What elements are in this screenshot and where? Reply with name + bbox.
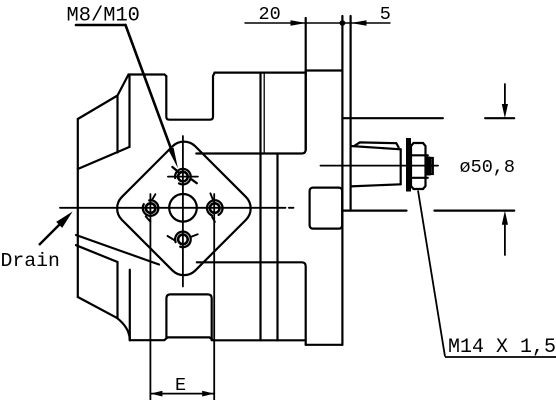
- wire: vertical centerline through flange: [182, 136, 184, 287]
- wire: drive shaft centerline: [321, 165, 439, 167]
- top notch between bosses: [166, 73, 214, 120]
- stub end cap: [431, 158, 433, 174]
- dim line dia50.8 lower stem: [504, 218, 506, 255]
- pilot dia50.8 bottom edge segment: [342, 210, 406, 212]
- bolt hole right (M8/M10): [207, 193, 223, 222]
- rear cover rear vertical edge: [77, 119, 79, 297]
- diamond mounting flange plate: [110, 135, 257, 282]
- nut M14 hex outline: [411, 143, 426, 189]
- rear cover left facet bottom edge: [78, 147, 130, 169]
- svg-text:20: 20: [259, 4, 281, 25]
- dimension line for 20 and 5: [245, 22, 390, 24]
- extension line for dim 20 at body face: [305, 18, 307, 150]
- svg-text:E: E: [175, 375, 186, 396]
- pilot dia50.8 bottom extension segment: [435, 210, 515, 212]
- mounting flange top edge: [306, 69, 343, 71]
- rear cover front vertical edge (bottom): [129, 270, 131, 341]
- pilot dia50.8 top edge + extension line: [342, 117, 442, 119]
- svg-text:5: 5: [380, 4, 391, 25]
- svg-text:Drain: Drain: [1, 250, 60, 272]
- pump body top edge, right segment: [215, 71, 306, 73]
- arrowhead dia50.8 up: [502, 211, 508, 225]
- rear cover left facet right edge: [116, 96, 118, 153]
- arrowhead dim 5: [351, 20, 367, 25]
- dimension dot at flange face: [340, 20, 346, 26]
- bearing boss edge line: [276, 154, 278, 341]
- nut facet line upper: [411, 154, 428, 156]
- bearing boss top silhouette into flange: [196, 71, 305, 154]
- washer (solid section): [406, 138, 411, 192]
- svg-text:ø50,8: ø50,8: [460, 157, 516, 178]
- tapered shaft bottom edge: [351, 184, 401, 186]
- bearing boss bottom silhouette into flange: [197, 262, 306, 345]
- extension line E left: [149, 194, 151, 400]
- mounting flange front face + dim extension: [341, 16, 343, 345]
- arrowhead dim 20: [291, 20, 307, 25]
- leader line M8/M10: [76, 25, 172, 150]
- shaft end face: [400, 149, 402, 184]
- rear cover bottom outer diagonal: [78, 297, 130, 340]
- body/front-cover joint line 1: [259, 73, 261, 341]
- pump body bottom edge: [130, 337, 306, 340]
- arrowhead dia50.8 down: [502, 104, 508, 118]
- rear cover top chamfer edge: [118, 75, 129, 96]
- svg-text:M8/M10: M8/M10: [67, 5, 140, 28]
- extension line E right: [213, 194, 215, 400]
- svg-text:M14 X 1,5: M14 X 1,5: [448, 336, 556, 359]
- rear cover lower chamfer edge B: [76, 245, 118, 318]
- leader line M14 X 1,5: [418, 191, 556, 358]
- nut facet line lower: [411, 177, 428, 179]
- rear cover lower chamfer edge A: [76, 235, 159, 265]
- pilot front face + dim extension: [350, 16, 352, 211]
- dim line dia50.8 upper stem: [504, 84, 506, 112]
- bolt hole left (M8/M10): [143, 194, 159, 222]
- bottom port boss outline: [166, 294, 211, 340]
- bolt hole bottom (M8/M10): [168, 232, 198, 248]
- wire: main horizontal centerline of pump: [60, 207, 286, 209]
- rear cover front vertical edge (top): [128, 75, 130, 147]
- mounting flange bottom edge: [306, 344, 343, 346]
- pump body top edge, left segment: [129, 75, 167, 77]
- dimension line E: [150, 393, 214, 395]
- shaft key: [355, 142, 399, 147]
- threaded stub end (solid): [426, 157, 431, 176]
- arrowhead E left: [150, 391, 162, 397]
- bolt hole top (M8/M10): [168, 167, 198, 184]
- rear cover left facet top edge: [78, 96, 118, 120]
- body/front-cover joint line 2: [263, 73, 265, 154]
- arrowhead E right: [202, 391, 214, 397]
- tapered shaft top edge: [351, 146, 401, 149]
- drain port boss on flange: [310, 188, 343, 229]
- flange center pilot bore circle: [169, 194, 197, 222]
- Drain arrow: [39, 212, 73, 246]
- leader arrowhead M8/M10: [168, 148, 178, 169]
